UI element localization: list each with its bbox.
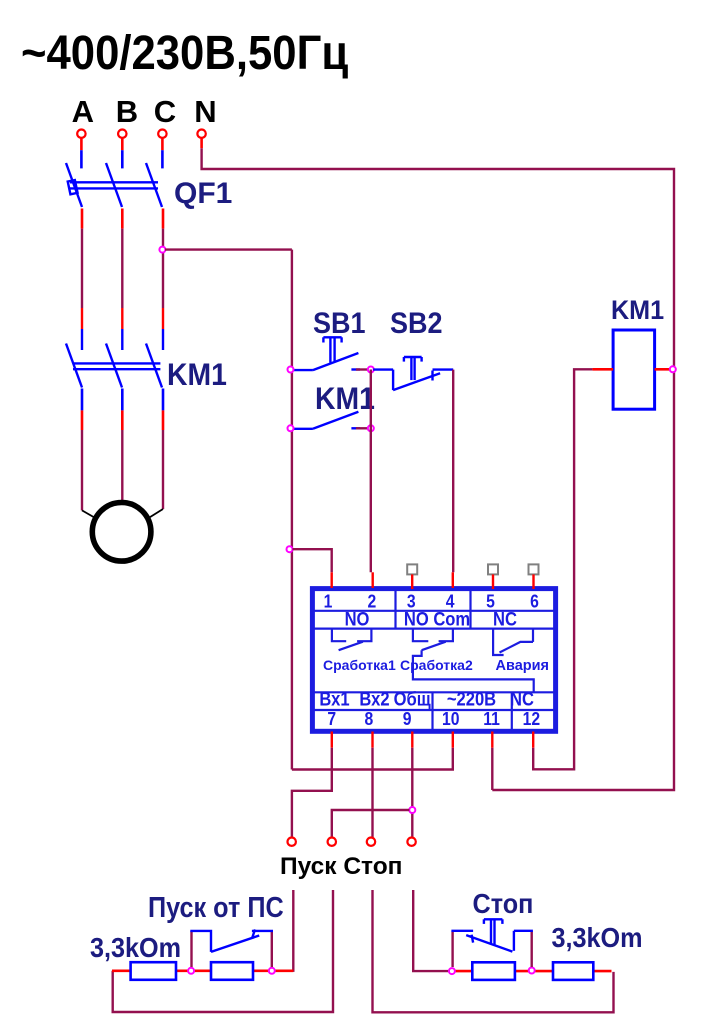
svg-text:Общ: Общ xyxy=(394,688,432,710)
svg-text:C: C xyxy=(154,94,176,129)
control left line xyxy=(291,250,293,770)
wire pin7 to T1 xyxy=(292,748,332,838)
svg-text:~220В: ~220В xyxy=(447,688,496,710)
wire C maroon xyxy=(162,229,164,308)
node SB1 right xyxy=(368,367,374,373)
svg-text:7: 7 xyxy=(327,708,336,730)
red stub pin5 xyxy=(492,574,494,589)
node KM1aux right xyxy=(368,425,374,431)
wire phase B blue in xyxy=(121,150,124,168)
node coil right xyxy=(670,366,676,372)
contactor KM1 main xyxy=(66,308,163,388)
wire C red xyxy=(162,410,165,430)
wire phase C blue in xyxy=(161,150,164,168)
terminal A xyxy=(77,130,85,138)
node C branch xyxy=(159,247,165,253)
node branch to pin1 xyxy=(287,546,293,552)
svg-text:NC: NC xyxy=(493,608,517,630)
svg-text:Вх2: Вх2 xyxy=(359,688,389,710)
svg-text:Пуск от ПС: Пуск от ПС xyxy=(148,890,284,923)
wire right control line down to pin2 xyxy=(370,370,372,573)
contact Pusk ot PS xyxy=(190,930,273,952)
node PS left xyxy=(188,968,194,974)
svg-text:Пуск Стоп: Пуск Стоп xyxy=(280,853,402,880)
wire N line xyxy=(202,148,674,790)
svg-text:Сработка1: Сработка1 xyxy=(323,657,396,673)
wire riser T2 to PS rail left xyxy=(113,890,333,1012)
red stub pin6 xyxy=(532,574,534,589)
wire C branch to control xyxy=(165,248,292,250)
bottom labels xyxy=(319,688,534,710)
wire B below KM1 blue xyxy=(121,389,124,411)
resistor R4 xyxy=(553,962,593,980)
row labels NO / NO Com / NC xyxy=(345,608,517,630)
wire KM1aux right xyxy=(356,427,371,429)
wire pin8 to T3 xyxy=(371,748,373,838)
red stubs pins 7-12 xyxy=(332,732,533,748)
terminal T3 xyxy=(367,838,375,846)
terminal T1 xyxy=(288,838,296,846)
node pin9 branch xyxy=(409,807,415,813)
svg-text:8: 8 xyxy=(365,708,374,730)
terminal B xyxy=(118,130,126,138)
relay contact 1 xyxy=(332,629,372,651)
coil right lead red xyxy=(655,368,671,371)
wire PS contact right riser xyxy=(271,931,273,967)
svg-text:~400/230В,50Гц: ~400/230В,50Гц xyxy=(21,25,348,79)
node Stop right xyxy=(529,968,535,974)
svg-text:QF1: QF1 xyxy=(174,177,232,210)
wire PS contact left riser xyxy=(190,931,192,967)
motor M xyxy=(92,503,151,562)
button SB2 xyxy=(373,357,453,390)
svg-text:9: 9 xyxy=(403,708,412,730)
svg-text:NC: NC xyxy=(510,688,534,710)
wire C below KM1 blue xyxy=(162,389,165,411)
wire phase A blue in xyxy=(80,150,83,168)
wire phase N red stub xyxy=(200,138,203,148)
wire riser T4 to Stop rail left xyxy=(413,890,450,971)
wire A maroon to motor xyxy=(81,430,83,510)
wire B red xyxy=(121,410,124,430)
motor lead C xyxy=(147,509,163,519)
coil left lead red xyxy=(592,368,613,371)
svg-text:KM1: KM1 xyxy=(611,296,664,325)
resistor R2 xyxy=(211,962,253,980)
pin numbers 1-6 xyxy=(324,590,539,612)
svg-text:1: 1 xyxy=(324,590,333,612)
coil left lead maroon xyxy=(533,369,592,769)
svg-text:6: 6 xyxy=(530,590,539,612)
left rail red xyxy=(112,969,293,972)
right rail red xyxy=(452,970,612,973)
svg-text:Сработка2: Сработка2 xyxy=(400,657,473,673)
wire A red xyxy=(81,410,84,430)
wire C maroon to motor xyxy=(162,430,164,509)
terminal N xyxy=(197,130,205,138)
relay box outer xyxy=(312,589,555,732)
wire pin11 stub xyxy=(491,748,493,790)
svg-text:3,3kOm: 3,3kOm xyxy=(90,932,181,964)
wire riser T1 to PS rail right xyxy=(292,890,294,972)
svg-text:NO Com: NO Com xyxy=(404,608,470,630)
wire B maroon to motor xyxy=(121,430,123,500)
breaker QF1 xyxy=(66,163,162,207)
wire phase C red stub xyxy=(161,138,164,150)
wire branch to pin1 xyxy=(293,549,332,572)
svg-text:12: 12 xyxy=(523,708,540,730)
terminal T2 xyxy=(328,838,336,846)
svg-text:N: N xyxy=(194,94,216,129)
red stub pin4 xyxy=(452,572,454,588)
wire phase B red stub xyxy=(121,138,124,150)
wire pin9 to T4 xyxy=(411,748,413,838)
wire SB1 right xyxy=(356,368,371,370)
svg-text:3,3kOm: 3,3kOm xyxy=(552,922,643,954)
wire Stop button right riser xyxy=(531,931,533,967)
svg-text:KM1: KM1 xyxy=(167,358,227,393)
node PS right xyxy=(269,968,275,974)
wire pin10 feed xyxy=(292,748,453,770)
svg-text:Авария: Авария xyxy=(496,658,550,674)
coil KM1 xyxy=(613,330,655,409)
wire A below QF1 red xyxy=(81,209,84,229)
svg-text:A: A xyxy=(72,94,94,129)
relay contact 3 xyxy=(493,629,533,655)
terminal square pin5 xyxy=(488,564,498,574)
node SB1 left xyxy=(288,367,294,373)
red stub pin1 xyxy=(331,572,333,588)
wire C below QF1 red xyxy=(162,209,165,229)
wire A below KM1 blue xyxy=(81,389,84,411)
red stub pin3 xyxy=(411,574,413,589)
wire B below QF1 red xyxy=(121,209,124,229)
terminal square pin3 xyxy=(407,564,417,574)
terminal C xyxy=(158,130,166,138)
contact KM1 aux xyxy=(293,412,360,429)
wire riser T3 to Stop rail right xyxy=(373,890,614,1012)
svg-text:B: B xyxy=(116,94,138,129)
terminal T4 xyxy=(407,838,415,846)
svg-text:SB2: SB2 xyxy=(390,307,442,341)
svg-text:KM1: KM1 xyxy=(315,382,375,417)
wire branch to T2 xyxy=(332,810,410,837)
motor lead A xyxy=(82,510,97,519)
resistor R3 xyxy=(472,962,515,980)
relay box grid xyxy=(312,589,555,732)
svg-text:Вх1: Вх1 xyxy=(319,688,349,710)
wire SB2 right down to pin4 xyxy=(452,370,454,573)
resistor R1 xyxy=(131,962,176,980)
pin numbers 7-12 xyxy=(327,708,540,730)
svg-text:10: 10 xyxy=(442,708,459,730)
svg-text:11: 11 xyxy=(483,708,500,730)
terminal square pin6 xyxy=(529,564,539,574)
wire B maroon xyxy=(121,229,123,308)
button SB1 xyxy=(293,337,360,370)
button Stop SB xyxy=(451,919,533,951)
svg-text:NO: NO xyxy=(345,608,370,630)
wire phase A red stub xyxy=(80,138,83,150)
node KM1aux left xyxy=(288,425,294,431)
node Stop left xyxy=(449,968,455,974)
relay contact 2 xyxy=(413,629,534,693)
svg-text:SB1: SB1 xyxy=(313,307,366,341)
red stub pin2 xyxy=(372,572,374,588)
wire A maroon xyxy=(81,229,83,308)
svg-text:Стоп: Стоп xyxy=(473,888,534,920)
wire Stop button left riser xyxy=(451,931,453,967)
